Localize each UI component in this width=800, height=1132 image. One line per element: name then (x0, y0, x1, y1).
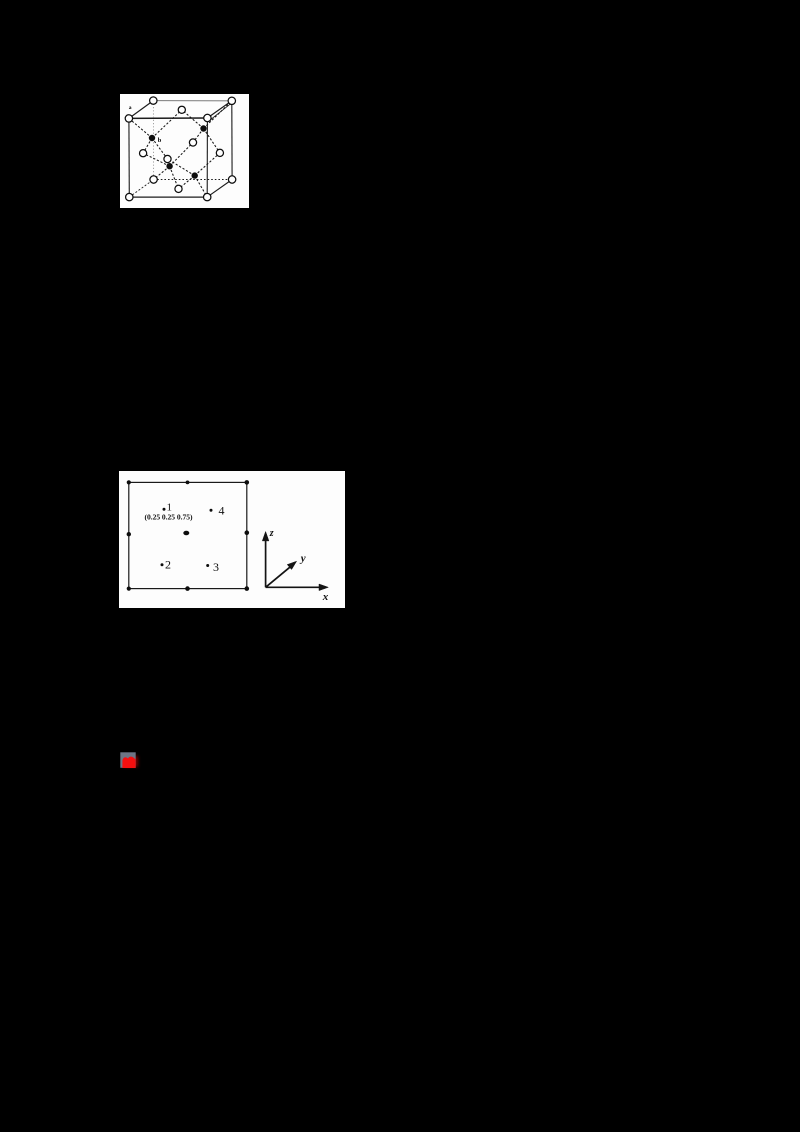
atom corner TLF (125, 115, 132, 122)
lattice dot right mid (245, 530, 250, 535)
white panel background (120, 94, 249, 208)
x axis (266, 586, 321, 588)
atom corner BRB (228, 176, 235, 183)
site dot 1 (163, 508, 166, 511)
atom corner TRF (204, 114, 211, 121)
atom interior b1 (149, 135, 155, 141)
wire cube edge front-left (128, 118, 130, 197)
gray chip background (120, 752, 135, 768)
z axis arrowhead (262, 532, 269, 541)
wire cube edge front-top (129, 117, 208, 119)
wire cube edge top-back (153, 100, 232, 102)
atom face center front (164, 155, 171, 162)
bond b3 to left face center (143, 153, 170, 166)
wire cube edge bottom-right (207, 180, 232, 198)
figure: (110) projection square with numbered sites and axes on white panel (119, 471, 345, 608)
wire cube edge front-bottom (129, 196, 207, 198)
atom face center right (216, 149, 223, 156)
atom corner TLB (150, 97, 157, 104)
svg-text:x: x (322, 591, 329, 603)
atom interior b3 (166, 163, 172, 169)
lattice dot corner bottom-right (245, 586, 250, 591)
site dot 3 (206, 564, 209, 567)
bond b3 to back face center (170, 143, 193, 167)
lattice dot left mid (127, 532, 131, 536)
bond b1 to corner TLF (129, 118, 152, 138)
bond b1 to top face center (152, 110, 182, 138)
lattice dot corner top-right (245, 480, 250, 485)
y axis arrowhead (287, 561, 296, 569)
lattice dot center (183, 531, 189, 536)
wire cube edge top-left (129, 101, 153, 119)
atom corner TRB (228, 97, 235, 104)
lattice dot top mid (186, 481, 190, 485)
red glyph (122, 757, 135, 768)
red glow (124, 756, 138, 767)
y axis (266, 567, 291, 588)
atom face center left (140, 150, 147, 157)
wire cube edge front-right (206, 118, 208, 197)
bond b4 to front face center (168, 159, 195, 176)
lattice dot corner top-left (127, 480, 131, 484)
atom interior b4 (192, 172, 198, 178)
red bullet icon (120, 752, 142, 770)
bond b4 to corner BRF (195, 176, 208, 198)
bond b1 to front face center (152, 138, 168, 159)
atom face center back (189, 139, 196, 146)
atom face center bottom (175, 185, 182, 192)
atom corner BRF (204, 193, 211, 200)
bond b2 to back face center (193, 129, 204, 143)
svg-text:b: b (158, 137, 162, 144)
wire cube edge top-right double (210, 103, 232, 121)
bond b2 to corner TRB (204, 101, 232, 129)
bond b2 to top face center (182, 110, 204, 129)
bond b3 to bottom face center (170, 166, 179, 189)
lattice dot corner bottom-left (127, 587, 131, 591)
white panel background (119, 471, 345, 608)
bond b4 to bottom face center (179, 176, 195, 189)
svg-text:4: 4 (219, 504, 225, 518)
z axis (265, 540, 267, 588)
x axis arrowhead (319, 584, 328, 591)
wire hidden edge bottom-back dotted (154, 179, 233, 181)
svg-text:y: y (299, 553, 306, 565)
bond b4 to right face center (195, 153, 220, 176)
svg-text:(0.25 0.25 0.75): (0.25 0.25 0.75) (145, 513, 193, 522)
svg-text:z: z (269, 528, 274, 539)
bond b1 to left face center (143, 138, 152, 153)
atom face center top (178, 106, 185, 113)
bond b2 to right face center (204, 129, 220, 153)
lattice dot bottom mid (185, 586, 190, 591)
svg-text:2: 2 (165, 558, 171, 572)
wire cube edge back-right vertical (231, 101, 233, 180)
cell square outline (129, 482, 247, 588)
svg-text:3: 3 (213, 560, 219, 574)
wire hidden edge back-left vertical dotted (152, 101, 154, 180)
atom corner BLF (126, 193, 133, 200)
wire hidden edge bottom-left dashed (129, 180, 153, 198)
site dot 2 (161, 563, 164, 566)
site dot 4 (210, 509, 213, 512)
figure: diamond cubic unit cell on white panel (120, 94, 249, 208)
svg-text:a: a (129, 105, 132, 111)
atom interior b2 (200, 125, 206, 131)
bond b3 to corner BLB (154, 166, 170, 179)
wire cube edge top-right (207, 101, 231, 118)
atom corner BLB (150, 176, 157, 183)
